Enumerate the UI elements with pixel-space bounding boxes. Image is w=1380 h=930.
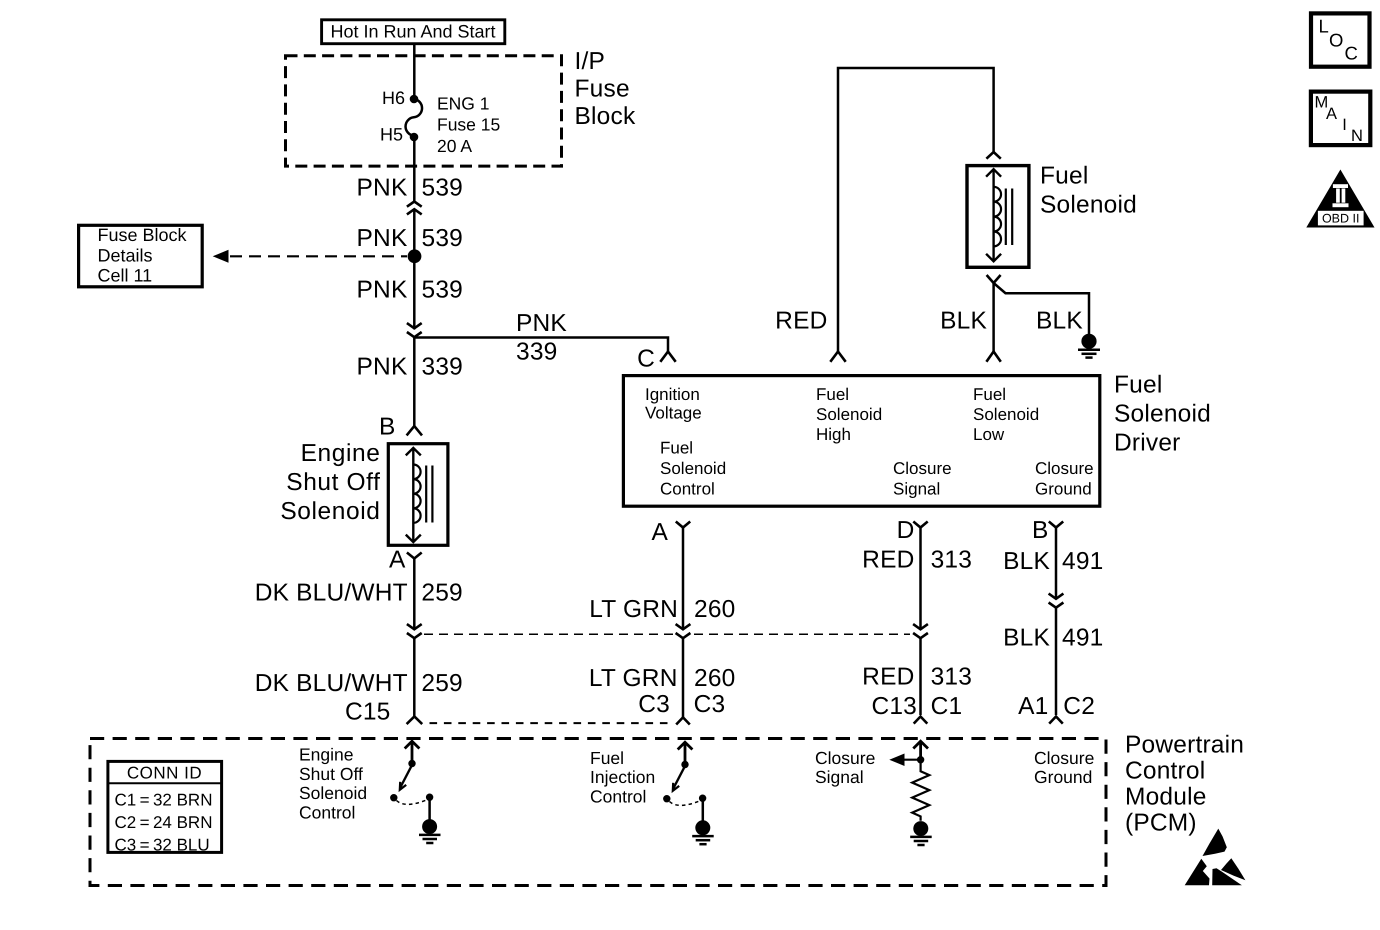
svg-text:ENG 1: ENG 1 xyxy=(437,93,490,113)
svg-text:Block: Block xyxy=(575,103,636,130)
inline connector (double chevron down) on LT GRN xyxy=(676,624,691,638)
wire: BLK 491 lower xyxy=(1055,608,1058,715)
pin into driver: Fuel Solenoid High xyxy=(830,352,845,362)
Powertrain Control Module dashed box xyxy=(90,739,1106,886)
svg-text:C: C xyxy=(1345,43,1358,64)
I/P Fuse Block label xyxy=(575,48,636,130)
pin into Fuel Solenoid box top xyxy=(986,152,1000,159)
Fuel Solenoid Driver label xyxy=(1114,372,1211,457)
svg-text:Engine: Engine xyxy=(299,745,354,765)
connector pin C13 | C1 at PCM xyxy=(871,693,962,724)
label LT GRN 260 (2) xyxy=(589,665,736,692)
label box "Hot In Run And Start" xyxy=(322,20,505,44)
PCM driver switch 2 (Fuel Injection Control) xyxy=(663,742,706,821)
svg-text:260: 260 xyxy=(694,665,735,692)
svg-text:BLK: BLK xyxy=(1003,548,1050,575)
driver pin label Ignition Voltage xyxy=(645,385,702,423)
svg-text:539: 539 xyxy=(422,225,463,252)
svg-text:DK BLU/WHT: DK BLU/WHT xyxy=(255,580,408,607)
label LT GRN 260 (1) xyxy=(589,596,735,623)
svg-text:RED: RED xyxy=(775,308,827,335)
svg-text:Solenoid: Solenoid xyxy=(973,405,1039,424)
svg-text:RED: RED xyxy=(862,547,914,574)
svg-text:H5: H5 xyxy=(380,124,403,144)
svg-text:B: B xyxy=(1032,517,1049,544)
svg-text:C1: C1 xyxy=(931,693,963,720)
terminal A of Engine Shut Off Solenoid xyxy=(389,546,422,573)
ground inside PCM (switch 2) xyxy=(692,820,714,844)
svg-text:Solenoid: Solenoid xyxy=(280,498,380,525)
Fuel Solenoid Driver box xyxy=(623,376,1099,507)
ground inside PCM (switch 1) xyxy=(419,819,441,843)
wire: fuse output PNK 539 xyxy=(413,137,416,202)
wire: PNK 539 through junction xyxy=(413,209,416,329)
svg-text:N: N xyxy=(1351,127,1363,145)
svg-text:C15: C15 xyxy=(345,699,391,726)
terminal D of driver xyxy=(897,517,928,544)
PCM pull-up arrow and resistor (Closure Signal) xyxy=(912,741,929,821)
wire: feed from Hot box into fuse block xyxy=(413,45,416,99)
svg-text:Injection: Injection xyxy=(590,767,655,787)
svg-text:PNK: PNK xyxy=(357,225,408,252)
svg-text:D: D xyxy=(897,517,915,544)
terminal B pin into Engine Shut Off Solenoid xyxy=(379,414,422,441)
svg-text:539: 539 xyxy=(422,277,463,304)
svg-text:Solenoid: Solenoid xyxy=(1040,192,1137,219)
LOC reference box xyxy=(1311,13,1370,66)
svg-text:A1: A1 xyxy=(1018,693,1048,720)
terminal A of driver xyxy=(651,519,690,546)
svg-text:259: 259 xyxy=(421,670,462,697)
svg-text:RED: RED xyxy=(862,664,914,691)
label BLK 491 (1) xyxy=(1003,548,1103,575)
svg-text:Control: Control xyxy=(660,480,715,499)
svg-text:A: A xyxy=(389,546,406,573)
svg-text:Hot In Run And Start: Hot In Run And Start xyxy=(330,22,495,42)
solenoid arrow core xyxy=(986,169,1001,261)
resistor R (zigzag) xyxy=(912,763,929,821)
label RED 313 (1) xyxy=(862,547,972,574)
svg-text:20 A: 20 A xyxy=(437,136,472,156)
label RED 313 (2) xyxy=(862,664,972,691)
svg-text:C13: C13 xyxy=(871,693,917,720)
Powertrain Control Module label xyxy=(1125,732,1244,837)
svg-text:Fuel: Fuel xyxy=(1040,163,1088,190)
svg-text:Control: Control xyxy=(1125,758,1205,785)
svg-text:Signal: Signal xyxy=(815,767,864,787)
terminal B of driver xyxy=(1032,517,1063,544)
wire: BLK branch to ground xyxy=(994,283,1089,334)
wire: PNK 339 down to solenoid xyxy=(413,337,416,426)
svg-text:(PCM): (PCM) xyxy=(1125,810,1197,837)
label PNK 539 (2) xyxy=(357,225,463,252)
solenoid coil xyxy=(413,465,420,523)
svg-text:Fuse 15: Fuse 15 xyxy=(437,115,500,135)
Engine Shut Off Solenoid component box xyxy=(388,444,448,546)
svg-text:Closure: Closure xyxy=(1035,459,1094,478)
I/P Fuse Block dashed box xyxy=(286,56,562,166)
label Closure Signal (PCM) xyxy=(815,748,875,787)
CONN ID table xyxy=(108,761,222,854)
solenoid arrow core xyxy=(406,448,421,542)
wire: DK BLU/WHT 259 lower xyxy=(413,638,416,716)
PCM driver switch 1 (Engine Shut Off Solenoid Control) xyxy=(390,741,433,820)
svg-text:OBD II: OBD II xyxy=(1322,211,1360,225)
svg-text:Solenoid: Solenoid xyxy=(1114,401,1211,428)
svg-text:C: C xyxy=(637,345,655,372)
svg-text:L: L xyxy=(1319,16,1329,37)
svg-text:B: B xyxy=(379,414,396,441)
MAIN reference box xyxy=(1311,92,1370,146)
wire: BLK from solenoid to driver Fuel Solenoid Low xyxy=(992,283,995,352)
label PNK 539 (1) xyxy=(357,175,463,202)
svg-text:H6: H6 xyxy=(382,88,405,108)
svg-text:PNK: PNK xyxy=(516,310,567,337)
wire: LT GRN 260 upper xyxy=(682,528,685,630)
svg-text:Fuse: Fuse xyxy=(575,76,630,103)
svg-text:O: O xyxy=(1329,30,1343,51)
svg-text:Driver: Driver xyxy=(1114,430,1181,457)
svg-text:313: 313 xyxy=(931,664,972,691)
inline connector (double chevron down) on DK BLU/WHT xyxy=(407,624,422,638)
svg-text:Closure: Closure xyxy=(1034,748,1094,768)
label DK BLU/WHT 259 (1) xyxy=(255,580,463,607)
svg-text:Solenoid: Solenoid xyxy=(660,459,726,478)
Engine Shut Off Solenoid label xyxy=(280,440,380,525)
svg-text:CONN ID: CONN ID xyxy=(127,764,202,783)
svg-text:I: I xyxy=(1342,116,1347,134)
Fuel Solenoid component box xyxy=(967,166,1029,268)
svg-text:Fuse Block: Fuse Block xyxy=(98,225,188,245)
svg-text:Fuel: Fuel xyxy=(816,385,849,404)
svg-text:Details: Details xyxy=(98,246,153,266)
svg-text:Shut Off: Shut Off xyxy=(286,469,380,496)
svg-text:Ignition: Ignition xyxy=(645,385,700,404)
svg-text:High: High xyxy=(816,425,851,444)
pin into driver: Fuel Solenoid Low xyxy=(986,352,1000,362)
inline connector (double chevron up) on PNK 539 xyxy=(407,202,422,215)
solenoid core bars xyxy=(425,466,427,523)
connector pin C3 | C3 at PCM xyxy=(638,691,725,725)
ESD sensitive device symbol xyxy=(1185,829,1246,886)
driver pin label Closure Signal xyxy=(893,459,952,499)
inline connector (double chevron down) on PNK 539/339 xyxy=(407,323,422,337)
label DK BLU/WHT 259 (2) xyxy=(255,670,463,697)
svg-text:Control: Control xyxy=(299,802,355,822)
svg-text:BLK: BLK xyxy=(1003,625,1050,652)
dashed connector face line C3 (lower) xyxy=(430,722,672,724)
driver pin label Fuel Solenoid Low xyxy=(973,385,1039,444)
inline connector (double chevron down) on RED 313 xyxy=(913,624,928,638)
svg-text:PNK: PNK xyxy=(357,354,408,381)
svg-text:Solenoid: Solenoid xyxy=(299,783,367,803)
svg-text:C3: C3 xyxy=(638,691,670,718)
driver pin label Fuel Solenoid Control xyxy=(660,439,726,499)
dashed reference arrow to Fuse Block Details xyxy=(213,250,407,263)
svg-text:Ground: Ground xyxy=(1035,480,1092,499)
OBD II symbol xyxy=(1306,170,1374,228)
svg-text:Fuel: Fuel xyxy=(1114,372,1162,399)
svg-text:260: 260 xyxy=(694,596,735,623)
svg-text:Signal: Signal xyxy=(893,480,940,499)
svg-text:Fuel: Fuel xyxy=(660,439,693,458)
svg-text:Low: Low xyxy=(973,425,1005,444)
terminal C pin into driver box xyxy=(637,345,676,372)
svg-text:LT GRN: LT GRN xyxy=(589,665,678,692)
svg-text:Powertrain: Powertrain xyxy=(1125,732,1244,759)
driver pin label Fuel Solenoid High xyxy=(816,385,882,444)
fuse ENG 1 Fuse 15 20 A xyxy=(406,93,501,156)
label PNK 339 (vertical) xyxy=(357,354,463,381)
svg-text:C3 = 32 BLU: C3 = 32 BLU xyxy=(115,836,210,855)
ground inside PCM (closure signal) xyxy=(910,821,932,845)
svg-text:Cell 11: Cell 11 xyxy=(98,266,153,286)
wire: PNK 339 horizontal branch to driver pin C xyxy=(414,338,668,352)
ground G404 xyxy=(1078,334,1100,358)
wire: LT GRN 260 lower xyxy=(682,638,685,717)
wire: RED 313 upper xyxy=(919,528,922,630)
label Fuel Injection Control (PCM) xyxy=(590,748,655,806)
svg-text:Module: Module xyxy=(1125,784,1207,811)
Fuse Block Details callout box xyxy=(79,225,203,287)
svg-text:C2 = 24 BRN: C2 = 24 BRN xyxy=(115,813,213,832)
svg-text:Voltage: Voltage xyxy=(645,404,702,423)
closure signal arrow into wire xyxy=(889,754,920,767)
svg-text:Ground: Ground xyxy=(1034,767,1092,787)
svg-text:Closure: Closure xyxy=(893,459,952,478)
dashed harness line (upper, between in-line connectors) xyxy=(424,633,910,635)
terminal H6 xyxy=(382,88,418,108)
label Closure Ground (PCM) xyxy=(1034,748,1094,787)
svg-text:A: A xyxy=(651,519,668,546)
junction node on PNK 539 xyxy=(408,249,422,263)
svg-text:259: 259 xyxy=(421,580,462,607)
svg-text:BLK: BLK xyxy=(940,308,987,335)
svg-text:Solenoid: Solenoid xyxy=(816,405,882,424)
svg-text:339: 339 xyxy=(516,339,557,366)
svg-text:491: 491 xyxy=(1062,548,1103,575)
driver pin label Closure Ground xyxy=(1035,459,1094,499)
inline connector (double chevron down) on BLK 491 xyxy=(1049,594,1064,608)
svg-text:I/P: I/P xyxy=(575,48,606,75)
svg-text:PNK: PNK xyxy=(357,277,408,304)
svg-text:Fuel: Fuel xyxy=(590,748,624,768)
wire: BLK 491 upper xyxy=(1055,528,1058,599)
svg-text:A: A xyxy=(1326,105,1337,123)
label PNK 539 (3) xyxy=(357,277,463,304)
svg-text:C1 = 32 BRN: C1 = 32 BRN xyxy=(115,791,213,810)
svg-text:Closure: Closure xyxy=(815,748,875,768)
wire: Fuel Solenoid High (RED) up and over xyxy=(838,68,994,352)
connector pin A1 | C2 at PCM xyxy=(1018,693,1095,724)
svg-text:Fuel: Fuel xyxy=(973,385,1006,404)
wire: RED 313 lower xyxy=(919,638,922,715)
svg-text:313: 313 xyxy=(931,547,972,574)
label BLK 491 (2) xyxy=(1003,625,1103,652)
svg-text:PNK: PNK xyxy=(357,175,408,202)
svg-text:491: 491 xyxy=(1062,625,1103,652)
svg-text:339: 339 xyxy=(422,354,463,381)
svg-text:BLK: BLK xyxy=(1036,308,1083,335)
label Engine Shut Off Solenoid Control (PCM) xyxy=(299,745,367,823)
Fuel Solenoid label xyxy=(1040,163,1137,219)
terminal Y below Fuel Solenoid xyxy=(987,275,1001,283)
terminal H5 xyxy=(380,124,418,144)
svg-text:DK BLU/WHT: DK BLU/WHT xyxy=(255,670,408,697)
wire: DK BLU/WHT 259 upper xyxy=(413,559,416,630)
svg-text:Control: Control xyxy=(590,786,646,806)
svg-text:Engine: Engine xyxy=(301,440,381,467)
svg-text:LT GRN: LT GRN xyxy=(589,596,678,623)
solenoid core bars xyxy=(1005,189,1007,246)
label PNK 339 (horizontal) xyxy=(516,310,567,366)
svg-text:Shut Off: Shut Off xyxy=(299,764,363,784)
svg-text:C2: C2 xyxy=(1063,693,1095,720)
solenoid coil xyxy=(994,187,1001,247)
connector pin C15 at PCM xyxy=(345,699,422,726)
svg-text:539: 539 xyxy=(422,175,463,202)
svg-text:C3: C3 xyxy=(694,691,726,718)
